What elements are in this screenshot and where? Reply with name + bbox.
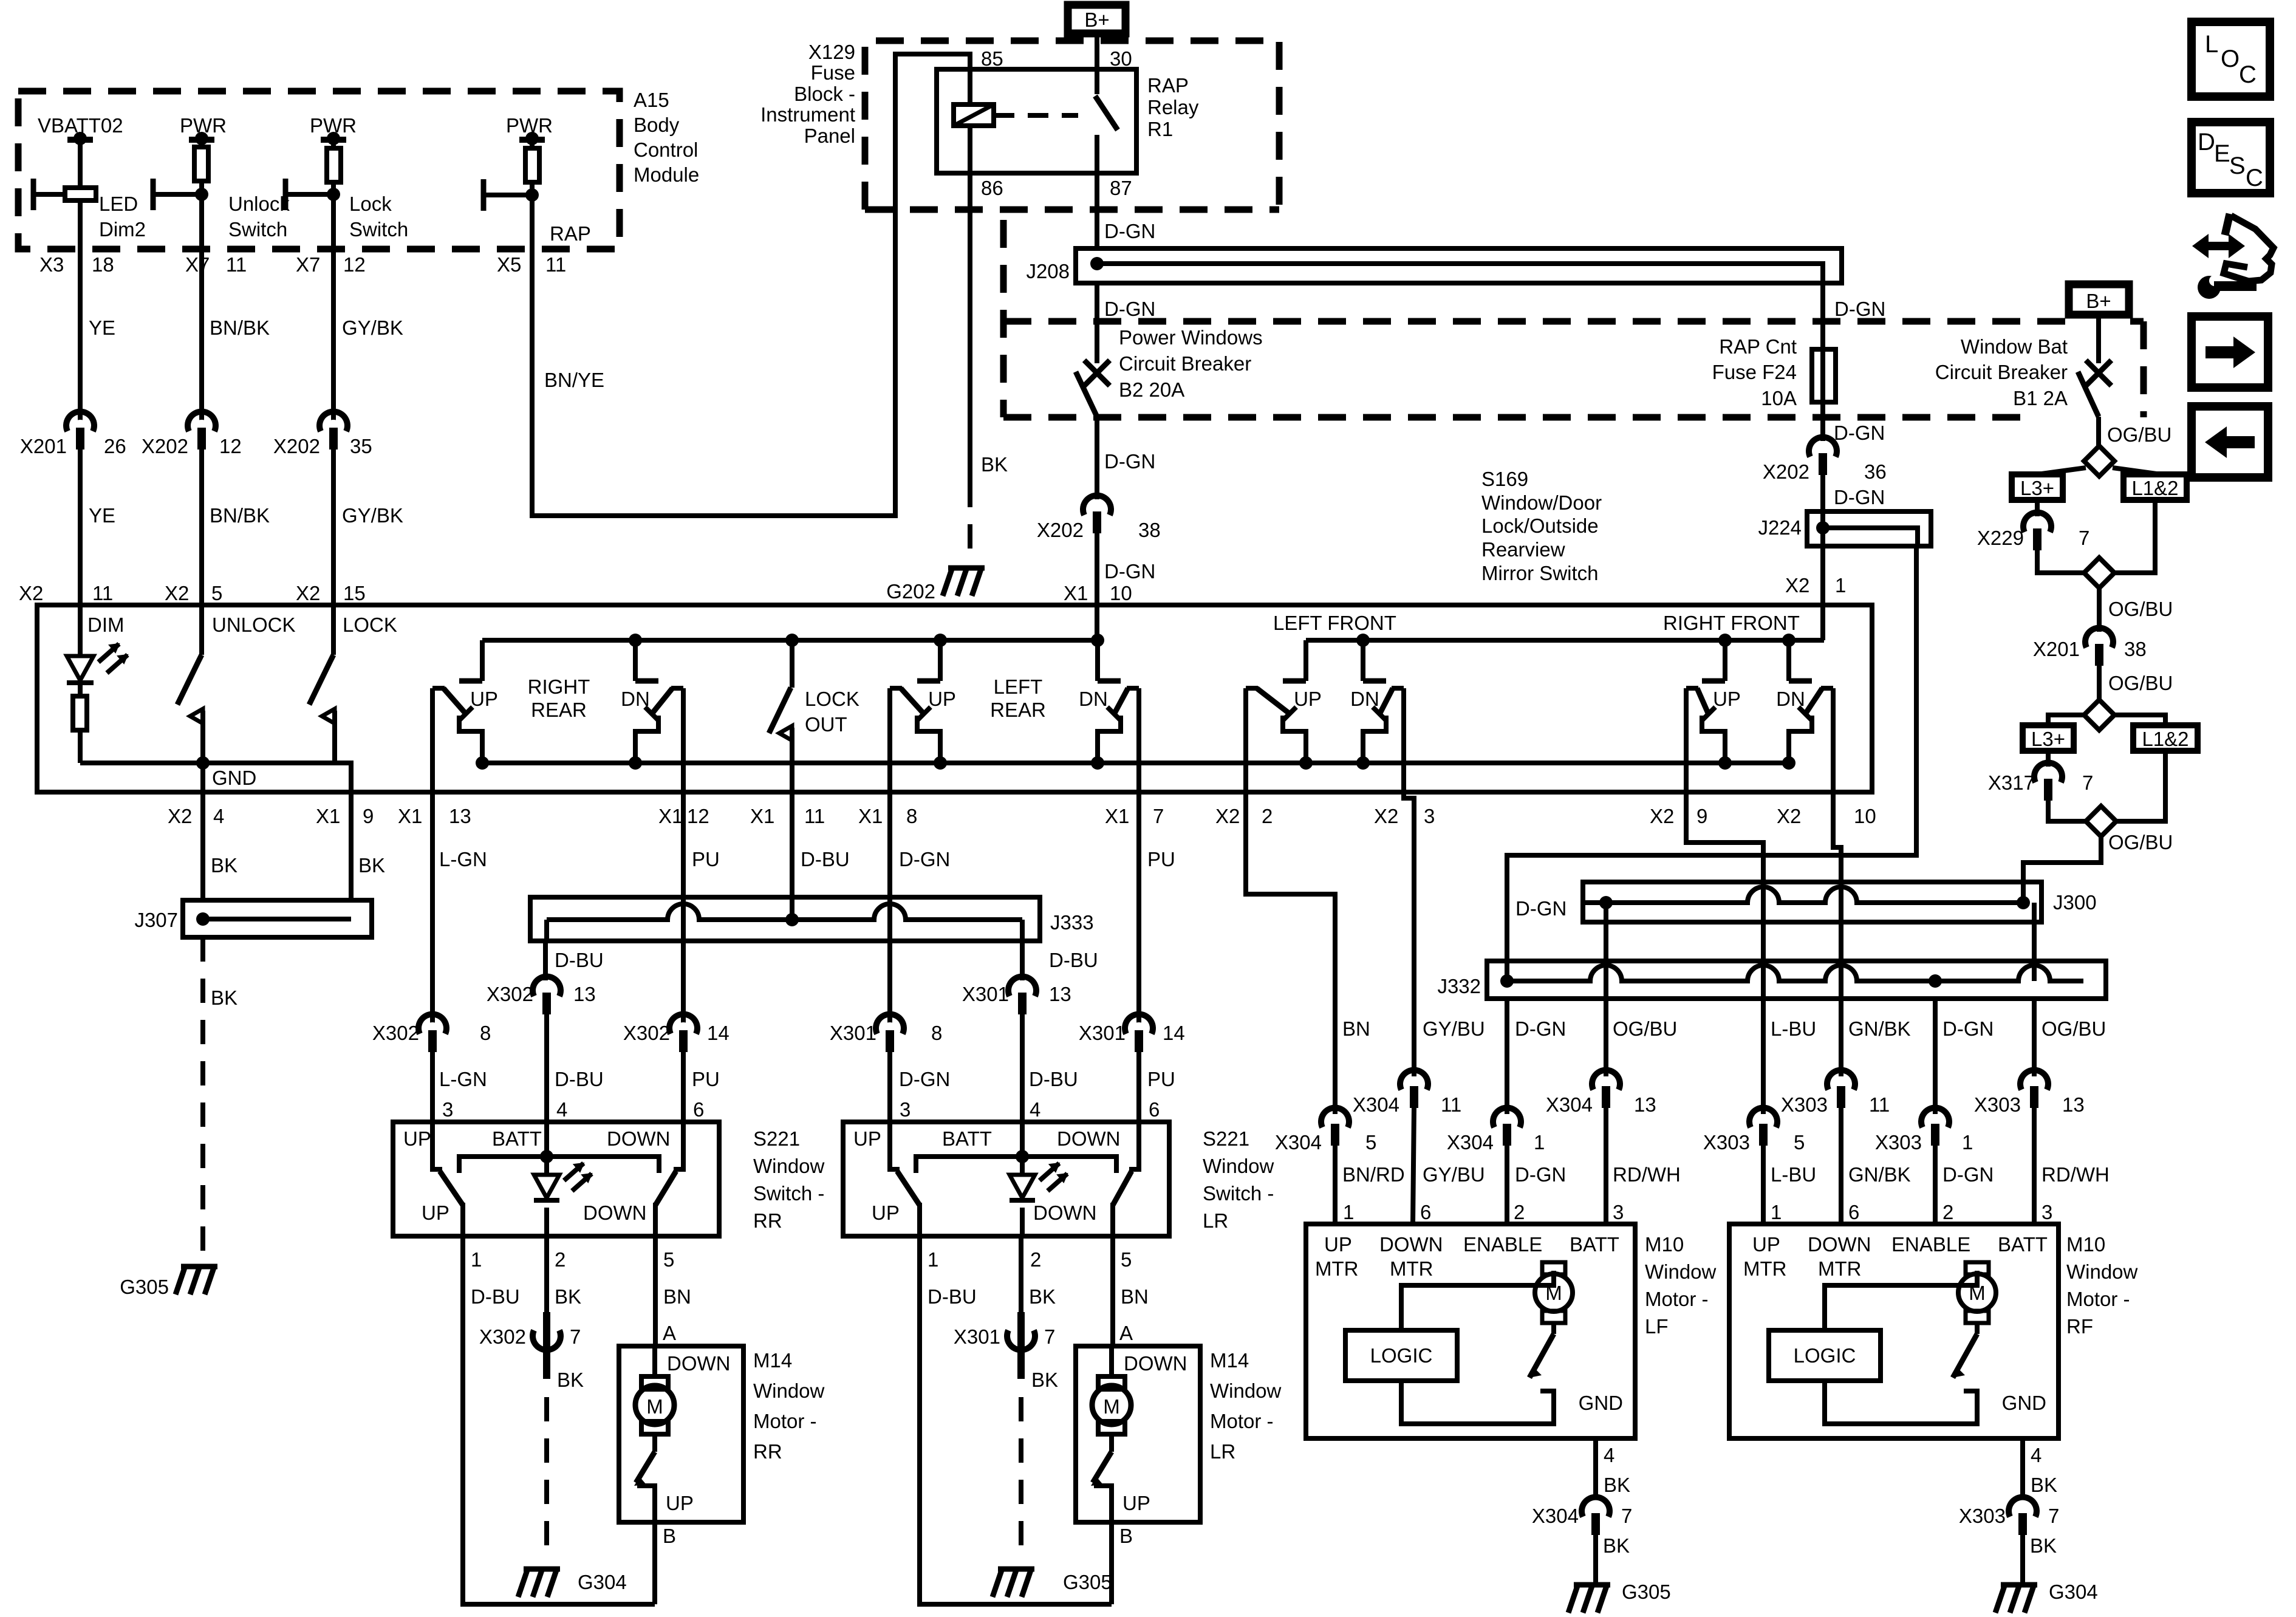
svg-text:X301: X301 <box>954 1325 1000 1348</box>
svg-text:13: 13 <box>2062 1093 2085 1116</box>
wire color D-GN RF 2 <box>1942 1163 1994 1186</box>
svg-text:X304: X304 <box>1353 1093 1399 1116</box>
wire color PU LR <box>1147 848 1175 870</box>
label LEFT REAR <box>990 675 1046 721</box>
svg-text:1: 1 <box>1771 1201 1782 1223</box>
RR motor lower wire <box>637 1486 655 1522</box>
svg-text:X201: X201 <box>2033 638 2080 660</box>
LR LED <box>1010 1163 1067 1200</box>
J300 label <box>2053 891 2097 914</box>
RF motor blade <box>1953 1323 1977 1378</box>
J333 bus <box>547 904 1022 941</box>
RR label A <box>663 1322 676 1344</box>
RF pin4 label <box>2031 1444 2041 1466</box>
svg-text:YE: YE <box>89 504 115 527</box>
svg-text:BN/BK: BN/BK <box>210 504 270 527</box>
wire color GY/BK <box>342 316 403 339</box>
RR LED <box>534 1163 592 1200</box>
svg-text:J307: J307 <box>134 909 178 931</box>
right rear DN stub <box>635 640 658 681</box>
lockout feed wire <box>790 640 794 688</box>
svg-text:X202: X202 <box>142 435 188 457</box>
unlock lower post <box>200 711 205 763</box>
svg-text:OG/BU: OG/BU <box>2041 1017 2106 1040</box>
RR label UP bottom <box>422 1202 449 1224</box>
svg-text:OG/BU: OG/BU <box>2108 831 2173 853</box>
RR pin1 label <box>471 1248 482 1271</box>
svg-text:Window: Window <box>1645 1260 1717 1283</box>
svg-text:LOCK: LOCK <box>343 614 397 636</box>
label DN left rear <box>1079 688 1108 710</box>
wire color D-GN below B2 <box>1104 450 1155 473</box>
connector X303 pin 13 <box>1974 1070 2085 1116</box>
wire color PU RR 2 <box>692 1068 720 1090</box>
svg-text:UP: UP <box>853 1127 881 1150</box>
relay coil link dashed <box>994 113 1078 118</box>
RAP Cnt Fuse F24 label <box>1712 335 1797 409</box>
svg-text:13: 13 <box>1634 1093 1656 1116</box>
lock switch wire <box>331 605 336 655</box>
wire diamond4 to J300 <box>2023 836 2101 900</box>
svg-text:GY/BU: GY/BU <box>1423 1163 1485 1186</box>
breaker B1 blade <box>2078 372 2099 417</box>
svg-text:L1&2: L1&2 <box>2142 728 2188 750</box>
svg-text:D-GN: D-GN <box>1515 897 1567 920</box>
wire J208 bus to breaker B2 <box>1095 283 1099 363</box>
wire X1-13 down <box>430 792 435 1122</box>
S169 label <box>1481 468 1602 584</box>
svg-text:D-BU: D-BU <box>801 848 850 870</box>
svg-text:X303: X303 <box>1703 1131 1750 1154</box>
wire M14 LR B <box>1109 1522 1114 1604</box>
label LOCK <box>343 614 397 636</box>
relay switch blade <box>1095 96 1118 130</box>
RF label GND <box>2002 1392 2046 1414</box>
RF gnd wire <box>2020 1438 2025 1499</box>
svg-text:BATT: BATT <box>1570 1233 1619 1256</box>
svg-text:1: 1 <box>471 1248 482 1271</box>
lock switch blade <box>309 655 333 705</box>
icon LOC box <box>2192 22 2270 97</box>
wire LED left stub <box>33 192 65 197</box>
wire color BK pin2 RR <box>555 1285 581 1308</box>
connector X317 pin 7 <box>1988 763 2093 801</box>
J332 label <box>1437 975 1481 997</box>
wire color D-GN LR <box>899 848 950 870</box>
svg-text:O: O <box>2221 46 2240 72</box>
relay coil <box>954 69 994 173</box>
right front UP stub <box>1702 640 1725 681</box>
svg-text:X302: X302 <box>479 1325 526 1348</box>
svg-text:BN: BN <box>1121 1285 1149 1308</box>
svg-text:5: 5 <box>1121 1248 1132 1271</box>
label DN right front <box>1776 688 1805 710</box>
wire color D-GN below J208 <box>1104 298 1155 320</box>
pin 4 label RR <box>556 1098 567 1121</box>
net PWR label col3 <box>310 114 357 137</box>
svg-text:M: M <box>646 1395 663 1418</box>
RR down switch <box>655 1122 683 1236</box>
svg-text:Switch -: Switch - <box>1203 1182 1274 1205</box>
svg-text:PU: PU <box>1147 848 1175 870</box>
pin X1 12 labels <box>658 805 709 827</box>
LF pin4 label <box>1604 1444 1614 1466</box>
svg-text:UP: UP <box>666 1492 694 1514</box>
wire LR pin5 BN <box>1110 1236 1115 1346</box>
pin 2 label LF <box>1514 1201 1525 1223</box>
RR pin5 label <box>663 1248 674 1271</box>
svg-text:Body: Body <box>634 114 680 136</box>
svg-text:REAR: REAR <box>531 699 587 721</box>
breaker B2 blade <box>1076 372 1097 417</box>
svg-text:Block -: Block - <box>794 83 855 105</box>
wire J224 to J332 <box>1507 546 1916 981</box>
wire color GN/BK 2 <box>1848 1163 1911 1186</box>
svg-text:6: 6 <box>1149 1098 1160 1121</box>
svg-text:L-GN: L-GN <box>439 848 487 870</box>
wire color BN LR <box>1121 1285 1149 1308</box>
wire F24 to X202-36 <box>1820 402 1825 441</box>
J333 label <box>1050 911 1094 934</box>
wire color GY/BU 2 <box>1423 1163 1485 1186</box>
svg-text:X2: X2 <box>168 805 192 827</box>
splice diamond 4 <box>2086 806 2116 836</box>
svg-text:LOGIC: LOGIC <box>1370 1344 1433 1367</box>
J307 bus <box>196 912 351 926</box>
pin X2 11 labels <box>19 582 113 604</box>
wire X303-7 to G304 <box>2020 1535 2025 1584</box>
wire color L-BU <box>1771 1017 1816 1040</box>
wire color YE <box>89 316 115 339</box>
wire color BN/BK <box>210 316 270 339</box>
J307 splice box <box>183 900 372 937</box>
S221 window switch LR box <box>843 1122 1169 1236</box>
pin 3 label LF <box>1613 1201 1624 1223</box>
svg-text:1: 1 <box>928 1248 938 1271</box>
svg-text:GN/BK: GN/BK <box>1848 1163 1911 1186</box>
svg-text:X201: X201 <box>20 435 67 457</box>
svg-text:RAP Cnt: RAP Cnt <box>1719 335 1797 358</box>
svg-text:X7: X7 <box>296 253 320 276</box>
svg-text:BK: BK <box>1603 1534 1630 1557</box>
wire X1-11 to J333 <box>790 792 794 920</box>
svg-text:11: 11 <box>92 582 113 604</box>
wire X2-3 to X304-11 <box>1404 792 1414 1076</box>
M14 RR label <box>753 1349 825 1463</box>
svg-text:D-GN: D-GN <box>1942 1163 1994 1186</box>
svg-text:1: 1 <box>1534 1131 1545 1154</box>
label UP left front <box>1294 688 1322 710</box>
LR battery wire <box>1020 1122 1025 1175</box>
fork to second lamp boxes <box>2048 715 2165 725</box>
svg-text:1: 1 <box>1962 1131 1973 1154</box>
RR wire A to motor <box>652 1346 657 1378</box>
LF wire logic to motor <box>1401 1271 1554 1330</box>
label UP right rear <box>470 688 498 710</box>
svg-text:X1: X1 <box>750 805 774 827</box>
svg-text:11: 11 <box>1441 1093 1461 1116</box>
pin X2 5 labels <box>165 582 222 604</box>
wire 86 down <box>968 173 972 483</box>
wire color BK X1-9 <box>358 854 385 877</box>
node L1&2 box 2 <box>2133 725 2198 751</box>
wire resistor to box col3 <box>331 182 336 605</box>
wire color D-GN above J208 <box>1104 220 1155 242</box>
wire color D-GN right of J208 <box>1834 298 1885 320</box>
RF wire logic to motor <box>1825 1271 1977 1330</box>
wire J300 to X304-13 <box>1604 903 1608 1076</box>
IP harness dashed bottom <box>1003 414 2031 421</box>
svg-text:PU: PU <box>692 1068 720 1090</box>
S169 feed bus right segment <box>1306 638 1824 643</box>
svg-text:85: 85 <box>981 47 1003 70</box>
svg-text:LOGIC: LOGIC <box>1794 1344 1856 1367</box>
feed bus dots <box>629 634 1795 647</box>
svg-text:Rearview: Rearview <box>1481 538 1565 561</box>
svg-text:UP: UP <box>1752 1233 1780 1256</box>
svg-text:7: 7 <box>2082 771 2093 794</box>
LR label UP bottom <box>872 1202 900 1224</box>
svg-text:UP: UP <box>872 1202 900 1224</box>
svg-text:5: 5 <box>1794 1131 1805 1154</box>
A15 Body Control Module label <box>634 89 699 186</box>
pin X2 9 labels <box>1650 805 1707 827</box>
svg-text:38: 38 <box>2124 638 2147 660</box>
svg-text:PU: PU <box>1147 1068 1175 1090</box>
svg-text:30: 30 <box>1110 47 1132 70</box>
svg-text:RAP: RAP <box>1147 74 1189 97</box>
svg-text:Switch: Switch <box>349 218 408 241</box>
svg-text:M14: M14 <box>1210 1349 1249 1372</box>
svg-text:UP: UP <box>422 1202 449 1224</box>
svg-text:L-GN: L-GN <box>439 1068 487 1090</box>
right front DN switch <box>1782 688 1833 792</box>
svg-text:Window: Window <box>753 1379 825 1402</box>
svg-text:M10: M10 <box>2066 1233 2105 1256</box>
ground G304 left <box>518 1569 627 1597</box>
svg-text:J224: J224 <box>1758 516 1802 539</box>
wire J332 to X303-13 <box>2032 999 2037 1076</box>
svg-text:11: 11 <box>804 805 825 827</box>
connector X202 pin 35 <box>273 412 372 457</box>
connector X301 pin 8 <box>830 1014 942 1052</box>
pin 6 label LR <box>1149 1098 1160 1121</box>
wire B+2 to breaker B1 <box>2096 313 2101 363</box>
pin X1 8 labels <box>858 805 917 827</box>
splice diamond 3 <box>2084 700 2114 730</box>
wire RAP BN/YE route <box>532 54 970 516</box>
svg-text:UP: UP <box>403 1127 431 1150</box>
icon DESC box <box>2192 122 2270 193</box>
svg-text:D-BU: D-BU <box>1029 1068 1078 1090</box>
wire RR pin5 BN <box>653 1236 658 1346</box>
svg-text:M: M <box>1103 1395 1120 1418</box>
svg-text:86: 86 <box>981 177 1003 199</box>
pin X5 11 labels <box>497 253 566 276</box>
label DN left front <box>1350 688 1379 710</box>
wire PWR to resistor col4 <box>530 140 535 148</box>
svg-text:RD/WH: RD/WH <box>2041 1163 2110 1186</box>
svg-text:GY/BU: GY/BU <box>1423 1017 1485 1040</box>
svg-text:UNLOCK: UNLOCK <box>212 614 296 636</box>
svg-text:Lock: Lock <box>349 193 392 215</box>
breaker B2 X mark <box>1084 360 1110 386</box>
svg-text:BK: BK <box>1031 1369 1058 1391</box>
svg-text:S: S <box>2229 152 2246 179</box>
resistor DIM <box>73 685 87 730</box>
relay pin 85 label <box>981 47 1003 70</box>
LF gnd wire <box>1593 1438 1598 1499</box>
pin 3 label RR <box>442 1098 453 1121</box>
wire color BK LF 2 <box>1603 1534 1630 1557</box>
wire color RD/WH RF <box>2041 1163 2110 1186</box>
svg-text:OG/BU: OG/BU <box>2108 598 2173 620</box>
connector X301 pin 7 <box>954 1312 1055 1379</box>
relay pin 87 label <box>1110 177 1132 199</box>
svg-text:S221: S221 <box>753 1127 800 1150</box>
wire color D-BU lockout <box>801 848 850 870</box>
svg-text:2: 2 <box>1942 1201 1953 1223</box>
connector X304 pin 5 <box>1275 1108 1376 1154</box>
svg-text:X303: X303 <box>1781 1093 1828 1116</box>
wire color D-BU RR <box>555 949 604 971</box>
label RIGHT FRONT <box>1663 612 1800 634</box>
LR wire A to motor <box>1109 1346 1114 1378</box>
svg-text:DN: DN <box>1776 688 1805 710</box>
Window Bat Circuit Breaker label <box>1935 335 2068 409</box>
svg-text:1: 1 <box>1835 574 1846 597</box>
ground G305 right <box>1568 1581 1671 1613</box>
connector X301 pin 14 <box>1079 1014 1185 1052</box>
svg-text:Motor -: Motor - <box>1645 1288 1709 1310</box>
LR motor lower wire <box>1094 1486 1112 1522</box>
unlock switch wire <box>199 605 204 655</box>
wire B+ to relay pin 30 <box>1095 32 1099 94</box>
unlock switch blade <box>177 655 202 705</box>
pin 4 label LR <box>1030 1098 1040 1121</box>
left front UP stub <box>1283 640 1306 681</box>
svg-text:11: 11 <box>1869 1093 1890 1116</box>
svg-text:GND: GND <box>2002 1392 2046 1414</box>
svg-text:RAP: RAP <box>550 222 591 245</box>
svg-text:X302: X302 <box>623 1022 670 1044</box>
svg-text:L-BU: L-BU <box>1771 1017 1816 1040</box>
svg-text:X317: X317 <box>1988 771 2035 794</box>
ground G305 mid <box>993 1569 1112 1597</box>
svg-text:B+: B+ <box>1084 9 1109 31</box>
pin X1 10 labels <box>1064 582 1132 604</box>
svg-text:8: 8 <box>931 1022 942 1044</box>
svg-text:B2 20A: B2 20A <box>1119 378 1184 401</box>
svg-text:LF: LF <box>1645 1315 1669 1338</box>
svg-text:Switch: Switch <box>228 218 287 241</box>
svg-text:X303: X303 <box>1875 1131 1922 1154</box>
gnd line to X1-9 <box>335 763 351 900</box>
svg-text:M10: M10 <box>1645 1233 1684 1256</box>
svg-text:Circuit Breaker: Circuit Breaker <box>1935 361 2068 383</box>
RR internal bus <box>459 1150 659 1173</box>
label UP right front <box>1713 688 1741 710</box>
svg-text:X2: X2 <box>165 582 189 604</box>
svg-text:X2: X2 <box>296 582 320 604</box>
svg-text:OG/BU: OG/BU <box>1613 1017 1677 1040</box>
wire X304-13 to M10 <box>1604 1107 1608 1224</box>
M10 LF label <box>1645 1233 1717 1338</box>
svg-text:Control: Control <box>634 138 698 161</box>
svg-text:M14: M14 <box>753 1349 792 1372</box>
svg-text:R1: R1 <box>1147 118 1173 140</box>
S169 switch box <box>37 605 1872 792</box>
svg-text:D-GN: D-GN <box>1834 298 1885 320</box>
resistor unlock pullup <box>194 147 208 181</box>
connector X202 pin 38 <box>1037 496 1161 541</box>
X129 Fuse Block label <box>760 41 855 147</box>
svg-text:X303: X303 <box>1959 1505 2006 1527</box>
wire color OG/BU 2 <box>2108 598 2173 620</box>
svg-text:B+: B+ <box>2086 290 2111 312</box>
svg-text:1: 1 <box>1343 1201 1354 1223</box>
gnd line <box>80 761 335 765</box>
J307 label <box>134 909 178 931</box>
RF wire color BK <box>2031 1474 2057 1496</box>
wire color BN/RD <box>1342 1163 1405 1186</box>
svg-text:Unlock: Unlock <box>228 193 290 215</box>
svg-text:DOWN: DOWN <box>1124 1352 1187 1375</box>
wire B1 to diamond <box>2096 417 2101 446</box>
pin X2 15 labels <box>296 582 366 604</box>
relay switch lower wire <box>1095 135 1099 248</box>
svg-text:BK: BK <box>211 854 237 877</box>
label GND <box>212 767 256 789</box>
svg-text:YE: YE <box>89 316 115 339</box>
svg-text:BK: BK <box>555 1285 581 1308</box>
svg-text:D-BU: D-BU <box>555 949 604 971</box>
svg-text:LOCK: LOCK <box>805 688 859 710</box>
svg-text:X202: X202 <box>1037 519 1084 541</box>
svg-text:GND: GND <box>212 767 256 789</box>
RR motor brush top <box>641 1376 668 1389</box>
wire X304-5 to M10 <box>1333 1144 1338 1224</box>
breaker B1 X mark <box>2086 360 2111 386</box>
svg-text:4: 4 <box>1030 1098 1040 1121</box>
wire color BK 86 <box>981 453 1008 476</box>
RR label BATT <box>492 1127 542 1150</box>
LF label BATT <box>1570 1233 1619 1256</box>
left front UP switch <box>1246 688 1313 792</box>
svg-text:OUT: OUT <box>805 713 847 736</box>
wire J332 to X303-1 <box>1933 999 1938 1114</box>
connector X302 pin 8 <box>372 1014 491 1052</box>
pin X7 11 labels <box>185 253 247 276</box>
RR LED to pin2 <box>544 1208 549 1236</box>
wire color D-GN above J224 <box>1834 486 1885 508</box>
connector X202 pin 12 <box>142 412 242 457</box>
wire DIM to gnd line <box>78 730 83 763</box>
wire color YE 2 <box>89 504 115 527</box>
J208 splice box <box>1076 248 1842 283</box>
RR pin2 label <box>555 1248 565 1271</box>
wire X2-10 to X303-11 <box>1833 792 1841 1076</box>
svg-text:5: 5 <box>211 582 222 604</box>
svg-text:X1: X1 <box>316 805 340 827</box>
svg-text:4: 4 <box>1604 1444 1614 1466</box>
svg-text:L-BU: L-BU <box>1771 1163 1816 1186</box>
branch to RAP bracket <box>483 188 539 202</box>
svg-text:BK: BK <box>557 1369 584 1391</box>
wire J300 to X303-13 <box>2032 903 2037 981</box>
Lock Switch label <box>349 193 408 241</box>
wire X303-5 to M10 <box>1761 1144 1766 1224</box>
